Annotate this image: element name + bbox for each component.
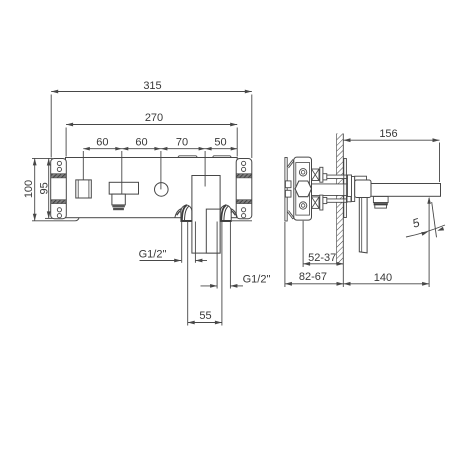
dim G1/2 left [139,249,207,263]
svg-text:315: 315 [143,80,161,92]
svg-text:60: 60 [96,137,108,149]
diverter circle [155,183,169,197]
svg-text:55: 55 [199,310,211,322]
svg-text:156: 156 [379,128,397,140]
left mounting bracket [51,159,67,219]
svg-text:5: 5 [411,215,422,230]
trim sleeve line left [187,222,189,326]
right nut wing [231,209,237,218]
plate bottom lip left [51,218,80,221]
lower elbow to handle [347,197,351,202]
wall plate front view [66,158,238,218]
spout body front [192,176,220,254]
dim 52-37 [303,221,343,287]
upper inlet fitting [312,167,327,182]
plate top tab right [212,156,231,158]
svg-text:70: 70 [176,137,188,149]
in-wall bracket strip side [285,158,294,222]
lower inlet fitting [312,195,327,210]
handle lever [359,198,367,253]
screw bottom [299,202,306,209]
right mounting bracket [236,159,252,219]
svg-text:G1/2": G1/2" [139,249,167,261]
svg-text:50: 50 [214,137,226,149]
valve block cap [355,176,367,180]
component B cartridge with aerator [109,182,138,210]
spout inner step [206,209,220,253]
trim sleeve line right [221,222,223,326]
upper inlet pipe through wall [327,175,348,179]
dim G1/2 right [201,273,271,288]
spout bar side [371,184,441,197]
dim 95 vertical [38,159,52,219]
svg-text:100: 100 [23,180,35,198]
svg-text:270: 270 [145,112,163,124]
aerator side [373,197,388,209]
plate bottom lip right [226,218,252,221]
left supply pipe below plate [182,222,196,263]
svg-text:140: 140 [374,272,392,284]
right nut [220,205,231,222]
svg-text:G1/2": G1/2" [243,273,271,285]
screw top [299,169,306,176]
dim 5 degree angle [406,197,445,287]
coupler stack right of wall [348,175,355,202]
valve body side [294,157,312,220]
svg-text:60: 60 [135,137,147,149]
dim 140 [344,272,430,285]
dim 156 [344,128,440,182]
svg-text:82-67: 82-67 [299,271,327,283]
right supply pipe below plate [217,222,230,289]
hex valve side [295,181,311,197]
left nut [181,205,192,222]
wall section hatched [337,134,344,265]
dim 270 [66,112,237,157]
dim 100 vertical [23,158,52,220]
component A check valve [76,180,92,198]
dim 55 [188,310,222,324]
left nut wing [175,209,181,218]
svg-text:52-37: 52-37 [308,252,336,264]
plate top tab left [178,156,198,158]
middle supply pipe through wall [312,184,348,196]
valve block side [355,180,371,198]
dim 315 [51,80,252,158]
dim 82-67 [285,222,344,287]
trim plate side [344,159,347,218]
lower inlet pipe through wall [327,199,348,202]
dim chain 60 60 70 50 [83,137,237,194]
